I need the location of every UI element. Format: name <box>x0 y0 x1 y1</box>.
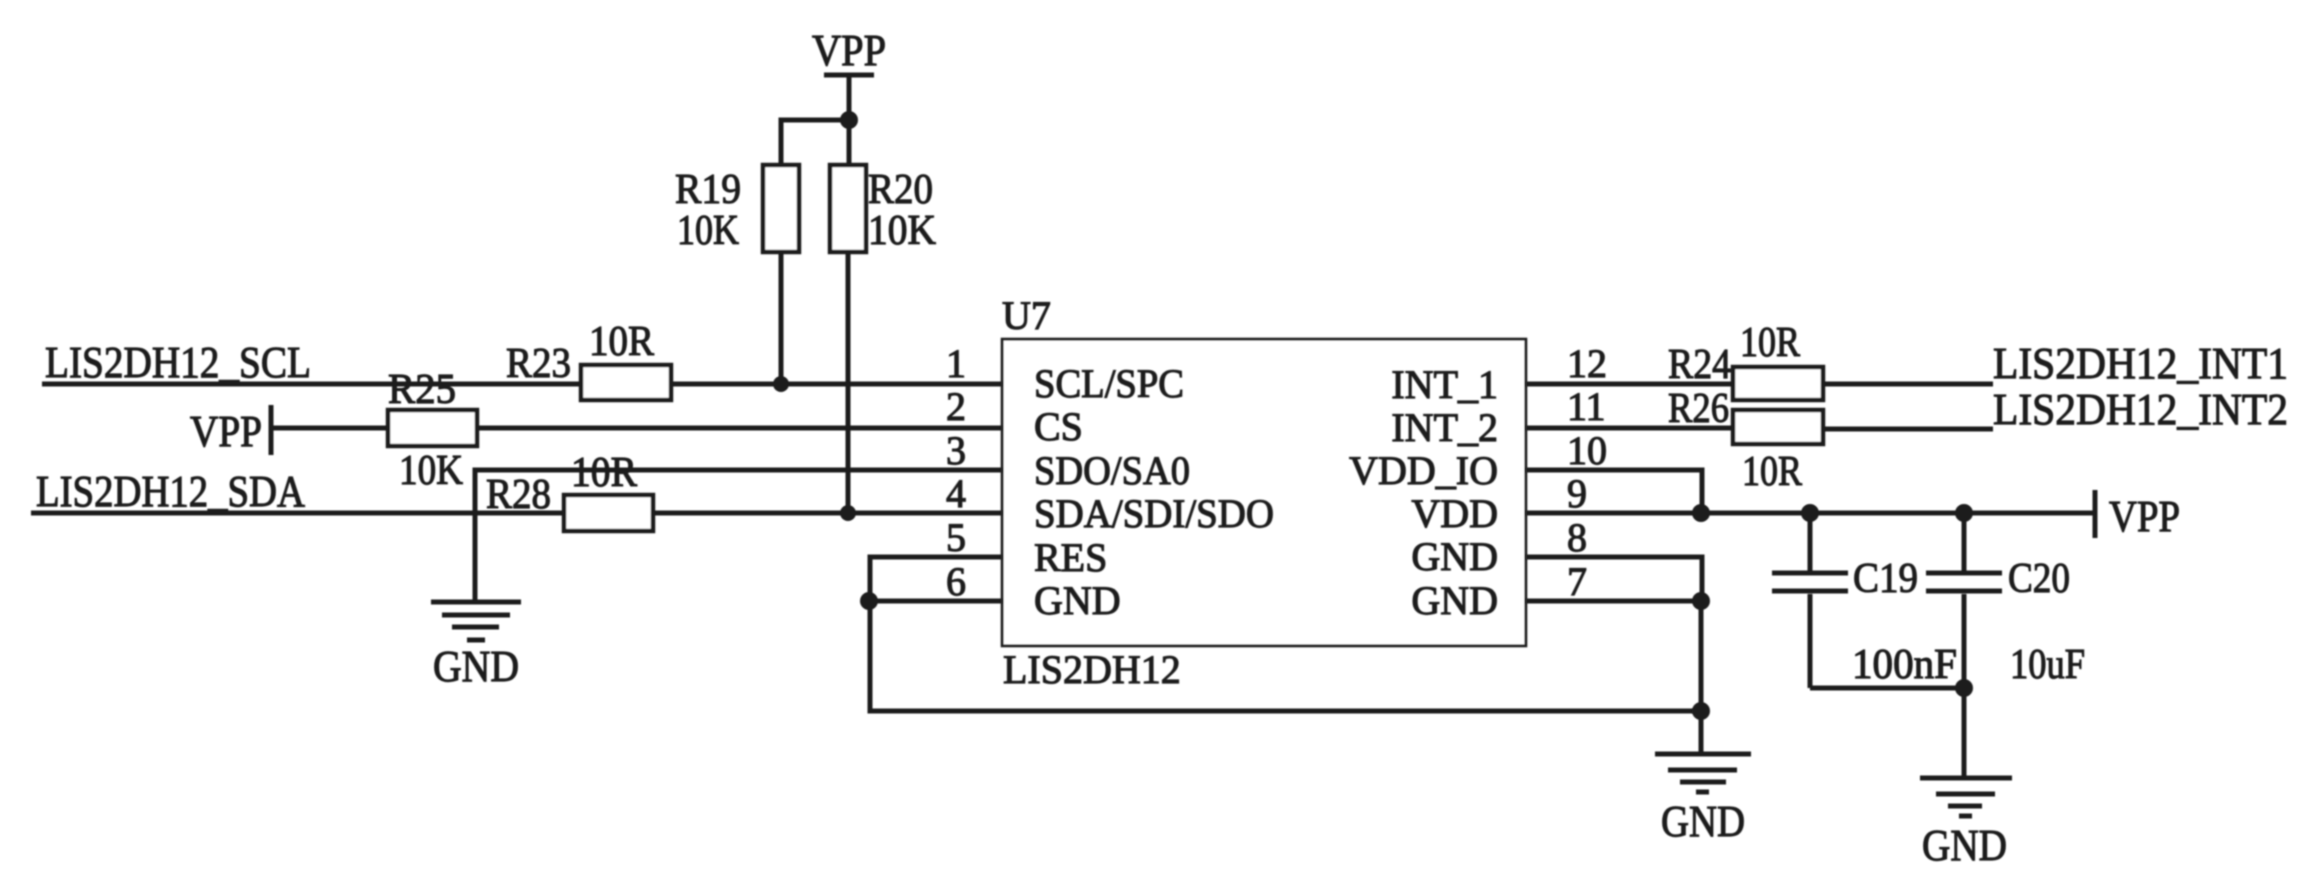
svg-text:LIS2DH12_SCL: LIS2DH12_SCL <box>45 338 311 387</box>
svg-text:U7: U7 <box>1002 293 1051 338</box>
svg-text:CS: CS <box>1034 404 1083 449</box>
resistor R26 10R <box>1668 386 1823 495</box>
wire VPP to R25 <box>271 426 388 431</box>
wire LIS2DH12_SDA to R28 <box>31 511 564 516</box>
svg-text:VPP: VPP <box>812 26 886 75</box>
wire pin7 down to ground <box>1699 601 1704 754</box>
svg-text:C20: C20 <box>2008 556 2070 602</box>
wire U7 pin12 to R24 <box>1526 382 1733 387</box>
wire pin6 down to bottom rail <box>870 601 1700 711</box>
svg-text:10R: 10R <box>1742 449 1802 495</box>
wire R28 to U7 pin4 (SDA) <box>653 511 1002 516</box>
capacitor C19 100nF <box>1772 513 1957 688</box>
wire VPP top down to junction <box>847 75 852 120</box>
resistor R19 10K <box>675 165 799 254</box>
wire U7 pin9 VDD rail to VPP <box>1526 511 2095 516</box>
svg-text:VPP: VPP <box>190 407 262 456</box>
svg-text:R28: R28 <box>486 472 551 518</box>
svg-text:R26: R26 <box>1668 386 1729 432</box>
wire R26 to LIS2DH12_INT2 <box>1823 427 1993 432</box>
power port VPP (left) <box>190 405 271 456</box>
svg-text:SCL/SPC: SCL/SPC <box>1034 361 1184 406</box>
svg-text:10R: 10R <box>589 319 654 365</box>
resistor R25 10K <box>388 367 477 494</box>
svg-text:R24: R24 <box>1668 342 1731 388</box>
svg-text:LIS2DH12_INT1: LIS2DH12_INT1 <box>1993 339 2288 388</box>
svg-text:5: 5 <box>946 515 966 560</box>
wire U7 pin3 SDO/SA0 to ground drop <box>475 470 1002 602</box>
wire R23 to U7 pin1 <box>671 382 1002 387</box>
wire R19 bottom to SCL <box>779 252 784 384</box>
svg-text:GND: GND <box>1661 797 1745 846</box>
junction C19 on VDD rail <box>1801 504 1819 522</box>
resistor R23 10R <box>506 319 671 400</box>
svg-text:R19: R19 <box>675 167 741 213</box>
svg-text:10R: 10R <box>1740 320 1800 366</box>
wire U7 pin8 GND loop <box>1526 557 1702 601</box>
svg-text:10uF: 10uF <box>2010 642 2085 688</box>
svg-text:100nF: 100nF <box>1852 642 1957 688</box>
resistor R20 10K <box>830 165 936 254</box>
svg-text:INT_2: INT_2 <box>1391 405 1498 450</box>
svg-text:10K: 10K <box>677 208 739 254</box>
junction pin5/pin6 <box>860 592 878 610</box>
junction C20 on VDD rail <box>1955 504 1973 522</box>
junction R20 on SDA wire <box>840 505 856 521</box>
svg-text:GND: GND <box>1034 578 1121 623</box>
svg-text:10: 10 <box>1567 428 1607 473</box>
power port VPP (top) <box>812 26 886 75</box>
svg-text:GND: GND <box>433 642 519 691</box>
svg-text:GND: GND <box>1411 534 1498 579</box>
capacitor C20 10uF <box>1926 513 2085 778</box>
power port VPP (right) <box>2095 490 2180 541</box>
svg-text:2: 2 <box>946 384 966 429</box>
svg-text:GND: GND <box>1922 821 2007 870</box>
resistor R24 10R <box>1668 320 1823 400</box>
svg-text:11: 11 <box>1567 384 1606 429</box>
svg-text:R25: R25 <box>388 367 456 413</box>
svg-text:8: 8 <box>1567 515 1587 560</box>
wire junction to R19 top <box>781 120 849 165</box>
svg-text:1: 1 <box>946 341 966 386</box>
svg-text:LIS2DH12_INT2: LIS2DH12_INT2 <box>1993 385 2288 434</box>
svg-text:SDA/SDI/SDO: SDA/SDI/SDO <box>1034 491 1274 536</box>
junction R19 on SCL wire <box>773 376 789 392</box>
svg-text:VPP: VPP <box>2109 492 2180 541</box>
svg-text:7: 7 <box>1567 559 1587 604</box>
wire R20 bottom to SDA <box>846 252 851 513</box>
wire C19 bottom to C20 bottom <box>1810 686 1964 691</box>
wire R25 to U7 pin2 (CS) <box>477 426 1002 431</box>
wire R24 to LIS2DH12_INT1 <box>1823 382 1993 387</box>
wire LIS2DH12_SCL to R23 <box>42 382 581 387</box>
junction pin8 / pin7 <box>1692 592 1710 610</box>
junction VPP / R19 / R20 <box>840 111 858 129</box>
junction bottom rail <box>1692 702 1710 720</box>
wire U7 pin5 RES loop <box>870 557 1002 601</box>
wire U7 pin7 GND <box>1526 599 1701 604</box>
junction C19/C20 bottom <box>1955 679 1973 697</box>
wire junction to R20 top <box>847 120 852 167</box>
svg-text:VDD: VDD <box>1411 491 1498 536</box>
svg-text:C19: C19 <box>1853 556 1918 602</box>
wire U7 pin10 VDD_IO loop to VDD rail <box>1526 470 1702 513</box>
svg-text:SDO/SA0: SDO/SA0 <box>1034 448 1190 493</box>
resistor R28 10R <box>486 450 653 531</box>
svg-text:INT_1: INT_1 <box>1391 362 1498 407</box>
svg-text:9: 9 <box>1567 471 1587 516</box>
svg-text:10K: 10K <box>868 208 936 254</box>
svg-text:6: 6 <box>946 559 966 604</box>
svg-text:4: 4 <box>946 471 966 516</box>
ground GND (middle) <box>1655 754 1751 846</box>
svg-text:R23: R23 <box>506 341 571 387</box>
svg-text:10K: 10K <box>399 448 463 494</box>
junction VDD_IO / VDD <box>1692 504 1710 522</box>
svg-text:R20: R20 <box>868 167 933 213</box>
svg-text:3: 3 <box>946 428 966 473</box>
svg-text:LIS2DH12: LIS2DH12 <box>1003 647 1181 692</box>
svg-text:VDD_IO: VDD_IO <box>1349 448 1498 493</box>
svg-text:RES: RES <box>1034 535 1107 580</box>
svg-text:12: 12 <box>1567 341 1607 386</box>
wire U7 pin11 to R26 <box>1526 426 1733 431</box>
wire U7 pin6 GND <box>870 599 1002 604</box>
svg-text:10R: 10R <box>571 450 637 496</box>
ground GND (left, SDO/SA0) <box>431 602 521 691</box>
ground GND (right, C20) <box>1920 778 2012 870</box>
svg-text:GND: GND <box>1411 578 1498 623</box>
IC U7 LIS2DH12 body <box>1002 339 1526 646</box>
svg-text:LIS2DH12_SDA: LIS2DH12_SDA <box>36 467 305 516</box>
